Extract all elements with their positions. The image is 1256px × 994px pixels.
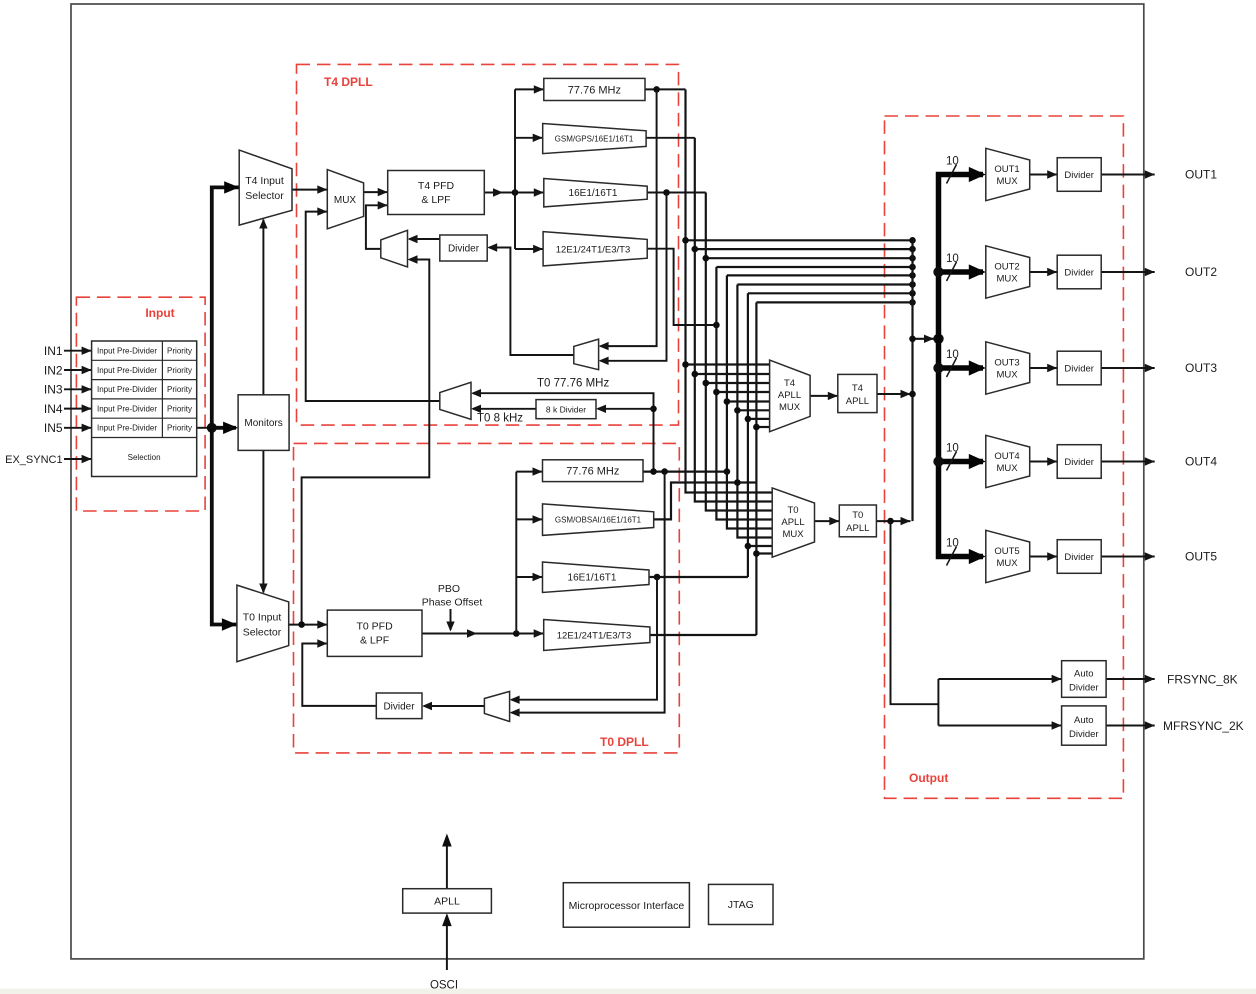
svg-text:Priority: Priority: [167, 366, 192, 375]
junction dots at bus feed: [909, 336, 916, 343]
wire T0 APLL output to collect line: [876, 517, 910, 525]
svg-text:OSCI: OSCI: [430, 980, 458, 992]
T4 APLL MUX input line 5: [727, 400, 770, 402]
wire table output to input bus: [197, 427, 212, 429]
wire T0 APLL branch down to auto dividers: [891, 521, 939, 704]
svg-text:OUT5: OUT5: [1185, 550, 1217, 564]
bus width slash marks: [947, 165, 957, 566]
bundle line 6: [737, 283, 912, 285]
junction dot T4 77.76 output branch: [653, 86, 660, 93]
collect line vertical: [911, 240, 913, 521]
svg-text:10: 10: [946, 253, 959, 265]
T4 GSM/GPS/16E1/16T1 block: [543, 124, 646, 154]
T0 16E1/16T1 block: [543, 562, 650, 593]
rail R7 (T0 16E1): [747, 293, 749, 577]
svg-text:Selector: Selector: [243, 627, 282, 639]
wire IN1 to pre-divider table: [64, 347, 92, 355]
wire T0 16E1 output to rail R7: [649, 576, 748, 578]
svg-text:Divider: Divider: [1064, 170, 1094, 181]
svg-text:PBO: PBO: [438, 583, 460, 595]
svg-text:Priority: Priority: [167, 424, 192, 433]
Output section dashed box: [885, 116, 1124, 798]
wire OUT1 Divider to pin: [1101, 170, 1155, 178]
svg-text:Priority: Priority: [167, 385, 192, 394]
wire T0 selector reference up to T4 feedback mux: [302, 255, 430, 624]
svg-text:Microprocessor Interface: Microprocessor Interface: [569, 900, 685, 912]
T0 GSM/OBSAI/16E1/16T1 block: [543, 504, 654, 536]
junction dots on output bus: [933, 267, 943, 277]
T0 Divider block: [376, 693, 422, 719]
svg-text:IN4: IN4: [44, 402, 63, 416]
svg-text:Divider: Divider: [448, 244, 480, 255]
T0 APLL MUX input line 7 tap: [748, 545, 772, 547]
T4 APLL MUX: [770, 360, 811, 432]
svg-text:16E1/16T1: 16E1/16T1: [569, 188, 618, 199]
svg-text:T0 PFD: T0 PFD: [357, 621, 394, 633]
svg-text:Divider: Divider: [1069, 729, 1099, 740]
svg-text:JTAG: JTAG: [728, 899, 754, 911]
T4 APLL block: [838, 374, 877, 412]
svg-text:Input Pre-Divider: Input Pre-Divider: [97, 366, 157, 375]
output bus branch OUT3: [939, 365, 984, 371]
svg-text:T0: T0: [787, 505, 798, 516]
OUT2 MUX: [986, 246, 1030, 298]
junction dot T4 APLL on collect line: [909, 391, 916, 398]
wire OUT5 Divider to pin: [1101, 552, 1155, 560]
8 k Divider block: [536, 400, 596, 419]
OUT4 MUX: [986, 435, 1030, 487]
T4 APLL MUX input line 8: [756, 426, 769, 428]
wire T0 77.76 output to rail R5: [643, 471, 727, 473]
svg-text:MUX: MUX: [334, 195, 357, 206]
svg-text:& LPF: & LPF: [421, 194, 450, 206]
svg-text:T4 Input: T4 Input: [245, 175, 284, 187]
svg-text:MUX: MUX: [996, 463, 1018, 474]
T0 PFD and LPF block: [327, 610, 422, 656]
wire T4 feedback mux output to T4 PFD lower input: [366, 201, 388, 249]
junction dots bundle right ends on collect line: [909, 237, 916, 244]
JTAG block: [709, 884, 774, 924]
wire to Auto Divider MFRSYNC: [938, 721, 1061, 729]
Input section dashed box: [76, 297, 205, 511]
junction dot on input bus at monitors tap: [207, 423, 217, 433]
rail R5 (T0 77.76): [727, 275, 772, 528]
bundle line 1: [686, 239, 913, 241]
bundle line 5: [727, 274, 913, 276]
bundle line 3: [706, 257, 913, 259]
svg-text:T4 DPLL: T4 DPLL: [324, 75, 373, 89]
OUT3 Divider: [1057, 351, 1101, 385]
bundle line 4: [716, 266, 912, 268]
svg-text:IN2: IN2: [44, 363, 63, 377]
wire OUT2 Divider to pin: [1101, 268, 1155, 276]
svg-text:Priority: Priority: [167, 347, 192, 356]
svg-text:APLL: APLL: [781, 517, 804, 528]
Auto Divider MFRSYNC block: [1062, 706, 1107, 745]
svg-text:T4: T4: [852, 383, 863, 394]
OUT5 MUX: [986, 530, 1030, 582]
wire distribution to GSM/OBSAI block: [516, 515, 542, 523]
svg-text:MUX: MUX: [996, 274, 1018, 285]
svg-text:APLL: APLL: [778, 390, 801, 401]
auto divider feed vertical: [937, 679, 939, 726]
T4 PFD and LPF block: [388, 171, 485, 215]
junction dot 8k divider tap: [650, 406, 657, 413]
junction dot T0 selector output tap: [298, 621, 305, 628]
wire T4 APLL output to collect line: [877, 390, 911, 398]
rail R6 (T0 GSM): [737, 285, 772, 538]
junction dot T0 PFD output on distribution column: [513, 630, 520, 637]
wire T4 77.76 MHz output to rail R1: [645, 88, 686, 90]
arrow into T4 Input Selector: [224, 181, 239, 193]
junction dot T4 16E1 output branch: [663, 189, 670, 196]
svg-text:OUT1: OUT1: [994, 164, 1019, 175]
OUT4 Divider: [1057, 445, 1101, 479]
svg-text:OUT3: OUT3: [994, 358, 1019, 369]
T0 APLL MUX input line 8 tap: [756, 552, 772, 554]
monitors block: [238, 395, 289, 451]
wire APLL up output: [442, 834, 452, 889]
T4 Divider block: [440, 235, 487, 261]
T0 77.76 / 8k select mux: [440, 382, 471, 419]
wire T0 77.76 branch down to T0 feedback mux: [510, 472, 665, 717]
T4 77.76 MHz block: [544, 78, 645, 100]
svg-text:MUX: MUX: [996, 176, 1018, 187]
T4 feedback divider select trapezoid: [574, 339, 599, 370]
wire T4 16E1 output to rail R3: [647, 192, 706, 194]
wire T4 77.76 branch down to T4 feedback selector: [599, 89, 657, 350]
svg-text:T4: T4: [784, 378, 795, 389]
junction dot T4 12E1 jog on rail R4: [713, 322, 720, 329]
svg-text:12E1/24T1/E3/T3: 12E1/24T1/E3/T3: [557, 631, 631, 642]
wire distribution to GSM/GPS block: [515, 134, 543, 142]
wire IN3 to pre-divider table: [64, 385, 92, 393]
svg-text:77.76 MHz: 77.76 MHz: [566, 466, 619, 478]
wire distribution to T0 16E1 block: [516, 573, 542, 581]
T0 APLL block: [839, 505, 876, 537]
T4 16E1/16T1 block: [544, 179, 647, 207]
T4 reference MUX: [327, 170, 363, 229]
svg-text:OUT2: OUT2: [994, 262, 1019, 273]
svg-text:GSM/OBSAI/16E1/16T1: GSM/OBSAI/16E1/16T1: [555, 515, 642, 524]
wire Auto Divider to MFRSYNC_2K pin: [1106, 721, 1155, 729]
svg-text:IN5: IN5: [44, 421, 63, 435]
T4 12E1/24T1/E3/T3 block: [543, 232, 647, 266]
wire T4 Input Selector to MUX: [292, 185, 327, 193]
T4 distribution column vertical: [514, 89, 516, 249]
svg-text:Divider: Divider: [383, 701, 415, 712]
svg-text:Auto: Auto: [1074, 669, 1094, 680]
wire IN5 to pre-divider table: [64, 424, 92, 432]
svg-text:APLL: APLL: [846, 523, 869, 534]
OUT1 Divider: [1057, 158, 1101, 192]
wire T4 APLL MUX to T4 APLL: [810, 392, 838, 400]
svg-text:Input Pre-Divider: Input Pre-Divider: [97, 424, 157, 433]
wire T0 APLL MUX to T0 APLL: [815, 517, 840, 525]
wire distribution to 12E1/24T1 block: [515, 245, 543, 253]
wire T4 MUX to T4 PFD upper input: [364, 188, 388, 196]
wire T4 feedback selector output to T4 Divider: [487, 243, 574, 355]
svg-text:16E1/16T1: 16E1/16T1: [568, 573, 617, 584]
svg-text:Input Pre-Divider: Input Pre-Divider: [97, 347, 157, 356]
svg-text:MUX: MUX: [782, 529, 804, 540]
OUT3 MUX: [986, 342, 1030, 394]
svg-text:IN1: IN1: [44, 344, 63, 358]
svg-text:MUX: MUX: [996, 558, 1018, 569]
wire T0 77.76 MHz reference line to T4 T0-mux: [471, 389, 654, 472]
rail R2 (T4 GSM): [695, 138, 772, 502]
bundle line 8: [756, 301, 912, 303]
svg-text:Selection: Selection: [128, 453, 161, 462]
svg-text:Divider: Divider: [1064, 268, 1094, 279]
wire OUT4 MUX to Divider: [1030, 457, 1058, 465]
rail R8 (T0 12E1): [755, 302, 757, 635]
junction dots on T0 77.76 output: [650, 468, 657, 475]
output bus branch OUT2: [939, 269, 984, 275]
rail R4 (T4 12E1): [716, 267, 772, 520]
T0 distribution column vertical: [515, 472, 517, 634]
T4 APLL MUX input line 1: [686, 363, 770, 365]
T0 Input Selector: [237, 585, 289, 662]
T4 APLL MUX input line 7: [748, 418, 770, 420]
svg-text:Phase Offset: Phase Offset: [422, 597, 483, 609]
svg-text:EX_SYNC1: EX_SYNC1: [5, 454, 62, 466]
svg-text:Input Pre-Divider: Input Pre-Divider: [97, 385, 157, 394]
svg-text:T4 PFD: T4 PFD: [418, 180, 455, 192]
wire IN2 to pre-divider table: [64, 366, 92, 374]
big arrows into OUT MUXes: [969, 167, 986, 182]
bundle line 7: [748, 292, 913, 294]
svg-text:10: 10: [946, 156, 959, 168]
svg-text:APLL: APLL: [434, 896, 460, 908]
rail R1 (T4 77.76): [686, 89, 773, 492]
wire Auto Divider to FRSYNC_8K pin: [1106, 675, 1155, 683]
APLL block (bottom): [403, 889, 492, 913]
T4 feedback selector mux (small left-pointing): [381, 230, 408, 267]
svg-text:77.76 MHz: 77.76 MHz: [568, 84, 621, 96]
PBO phase offset arrow: [446, 609, 454, 632]
output bus vertical (thick): [939, 175, 984, 557]
OUT2 Divider: [1057, 255, 1101, 289]
svg-text:Output: Output: [909, 771, 948, 785]
T4 DPLL dashed box: [297, 64, 679, 425]
T4 APLL MUX input line 2: [695, 373, 770, 375]
T0 12E1/24T1/E3/T3 block: [544, 620, 650, 651]
rail R3 (T4 16E1): [706, 193, 772, 511]
svg-text:Selector: Selector: [245, 190, 284, 202]
svg-text:Input Pre-Divider: Input Pre-Divider: [97, 405, 157, 414]
svg-text:Divider: Divider: [1064, 457, 1094, 468]
bundle line 2: [695, 248, 913, 250]
svg-text:T0: T0: [852, 510, 863, 521]
wire Monitors up to T4 Input Selector: [259, 219, 267, 395]
svg-text:T0 Input: T0 Input: [243, 612, 282, 624]
svg-text:& LPF: & LPF: [360, 635, 389, 647]
wire T4 12E1 output jog to rail R4: [647, 249, 716, 325]
wire tap to 8 k Divider input: [596, 405, 654, 413]
wire 8 k Divider output to T4 T0-mux: [471, 405, 536, 413]
svg-text:OUT4: OUT4: [1185, 455, 1217, 469]
svg-text:Monitors: Monitors: [244, 418, 282, 429]
junction dot T0 APLL output branch: [887, 518, 894, 525]
svg-text:OUT4: OUT4: [994, 451, 1019, 462]
wire T4 16E1 branch down to T4 feedback selector: [599, 193, 667, 365]
svg-text:OUT3: OUT3: [1185, 361, 1217, 375]
svg-text:T0 DPLL: T0 DPLL: [600, 735, 649, 749]
svg-text:Priority: Priority: [167, 405, 192, 414]
junction dot T4 PFD output on distribution column: [512, 189, 519, 196]
svg-text:Divider: Divider: [1064, 364, 1094, 375]
wire OUT3 Divider to pin: [1101, 364, 1155, 372]
svg-text:IN3: IN3: [44, 383, 63, 397]
wire collect line feed to output bus: [913, 335, 935, 343]
input bus vertical (thick): [212, 187, 239, 624]
OUT5 Divider: [1057, 540, 1101, 574]
wire T0 PFD output to T0 distribution: [422, 629, 544, 637]
output bus branch OUT4: [939, 459, 984, 465]
svg-text:Divider: Divider: [1069, 683, 1099, 694]
wire OUT5 MUX to Divider: [1030, 552, 1058, 560]
wire T4 Divider output to T4 feedback mux: [408, 235, 440, 243]
wire distribution to 77.76 MHz block: [515, 85, 544, 93]
svg-text:OUT2: OUT2: [1185, 265, 1217, 279]
T0 feedback selector mux (small left-pointing): [484, 691, 509, 721]
junction dots T4 APLL MUX staircase: [682, 361, 689, 368]
wire EX_SYNC1 to selection block: [64, 455, 92, 463]
wire OSCI into APLL: [442, 913, 452, 970]
bottom page strip: [0, 989, 1256, 994]
T4 APLL MUX input line 3: [706, 382, 770, 384]
svg-text:GSM/GPS/16E1/16T1: GSM/GPS/16E1/16T1: [555, 134, 634, 143]
wire T0 reference up to T4 MUX second input: [306, 207, 440, 401]
wire T4 PFD output to distribution column: [484, 188, 544, 196]
wire Monitors down to T0 Input Selector: [259, 450, 267, 593]
Microprocessor Interface block: [563, 883, 689, 928]
svg-text:T0 8 kHz: T0 8 kHz: [477, 413, 523, 425]
wire OUT2 MUX to Divider: [1030, 268, 1058, 276]
wire T0 16E1 branch down to T0 feedback mux: [510, 577, 657, 704]
svg-text:OUT5: OUT5: [994, 546, 1019, 557]
svg-text:12E1/24T1/E3/T3: 12E1/24T1/E3/T3: [556, 244, 630, 255]
T4 APLL MUX input line 6: [737, 409, 769, 411]
T0 DPLL dashed box: [294, 443, 680, 753]
wire IN4 to pre-divider table: [64, 404, 92, 412]
arrow into Monitors: [223, 422, 238, 434]
input pre-divider table: [92, 341, 197, 477]
svg-text:Divider: Divider: [1064, 552, 1094, 563]
svg-text:MUX: MUX: [996, 370, 1018, 381]
wire T0 selector output to T0 PFD: [289, 620, 328, 628]
wire T0 Divider feedback to T0 PFD lower input: [302, 639, 376, 706]
T4 Input Selector: [239, 150, 292, 225]
svg-text:MUX: MUX: [779, 402, 801, 413]
T4 APLL MUX input line 4: [716, 391, 769, 393]
svg-text:Input: Input: [145, 306, 174, 320]
svg-text:FRSYNC_8K: FRSYNC_8K: [1167, 673, 1238, 687]
wire OUT4 Divider to pin: [1101, 457, 1155, 465]
svg-text:T0 77.76 MHz: T0 77.76 MHz: [537, 378, 609, 390]
wire OUT1 MUX to Divider: [1030, 170, 1058, 178]
svg-text:10: 10: [946, 349, 959, 361]
Auto Divider FRSYNC block: [1062, 661, 1107, 698]
svg-text:Auto: Auto: [1074, 715, 1094, 726]
junction dots T0 APLL MUX taps on rails R7 R8: [745, 543, 752, 550]
wire T0 12E1 output to rail R8: [650, 634, 757, 636]
T0 APLL MUX: [772, 488, 814, 557]
wire to Auto Divider FRSYNC: [938, 675, 1061, 683]
svg-text:10: 10: [946, 538, 959, 550]
svg-text:APLL: APLL: [846, 396, 869, 407]
svg-text:10: 10: [946, 443, 959, 455]
svg-text:MFRSYNC_2K: MFRSYNC_2K: [1163, 719, 1244, 733]
T0 77.76 MHz block: [543, 460, 644, 482]
junction dots bundle taps on rails: [682, 237, 689, 244]
arrow into T0 Input Selector: [222, 618, 237, 630]
svg-text:OUT1: OUT1: [1185, 168, 1217, 182]
wire distribution to T0 77.76 MHz block: [516, 467, 542, 475]
junction dot T0 GSM jog on rail R6: [734, 479, 741, 486]
wire OUT3 MUX to Divider: [1030, 364, 1058, 372]
svg-text:8 k Divider: 8 k Divider: [546, 404, 586, 414]
wire T0 feedback mux output to T0 Divider: [422, 702, 484, 710]
OUT1 MUX: [986, 148, 1030, 200]
junction dot T0 16E1 output branch: [654, 574, 661, 581]
wire T4 GSM/GPS output to rail R2: [646, 137, 695, 139]
wire T0 GSM/OBSAI output jog to rail R8: [654, 483, 757, 520]
wire bus to Monitors (thick): [212, 426, 236, 430]
